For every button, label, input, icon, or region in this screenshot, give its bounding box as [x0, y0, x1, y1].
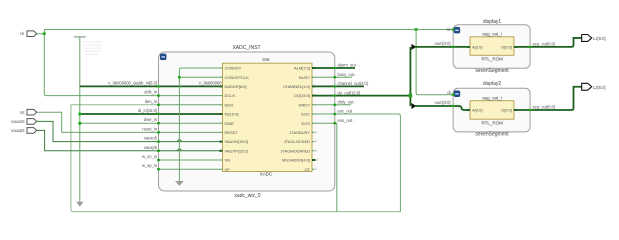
- unconnected-pin 0 markers: [315, 130, 318, 171]
- svg-text:seg_out[6:0]: seg_out[6:0]: [533, 41, 556, 46]
- svg-text:MUXADDR[4:0]: MUXADDR[4:0]: [282, 158, 310, 163]
- wire num bus into display2: [414, 105, 453, 107]
- svg-text:sevenSegment: sevenSegment: [475, 131, 509, 137]
- junction ground to CONVSTCLK: [178, 76, 181, 79]
- interior wire BUSY row: [316, 76, 335, 78]
- faint ghost artifact strips: [83, 41, 102, 55]
- junction ck net: [43, 32, 46, 35]
- svg-text:∽: ∽: [357, 64, 360, 68]
- svg-text:0: 0: [315, 149, 317, 153]
- input port vauxn5: [11, 119, 36, 125]
- svg-text:EOS: EOS: [302, 121, 311, 126]
- interior wire vauxn row: [159, 141, 220, 143]
- svg-text:RESET: RESET: [225, 130, 239, 135]
- svg-text:CONVST: CONVST: [225, 66, 242, 71]
- svg-text:VAUXN[15:0]: VAUXN[15:0]: [225, 139, 249, 144]
- output port L1: [582, 35, 606, 42]
- interior wire DRDY row: [316, 104, 335, 106]
- svg-text:eos_out: eos_out: [338, 118, 353, 123]
- wire do_out bus to junction: [335, 95, 411, 97]
- svg-text:DRDY: DRDY: [299, 102, 311, 107]
- svg-text:VAUXP[15:0]: VAUXP[15:0]: [225, 148, 248, 153]
- svg-text:0: 0: [315, 167, 317, 171]
- svg-text:vauxp5: vauxp5: [144, 145, 158, 150]
- wire ck net branch to dclk_in: [44, 34, 158, 96]
- wire ck net branch to display2 ck: [416, 30, 453, 95]
- svg-text:seg_out_i: seg_out_i: [482, 31, 502, 36]
- XADC scalar pin stubs right: [312, 77, 316, 169]
- svg-text:0: 0: [315, 140, 317, 144]
- svg-text:dwe_in: dwe_in: [144, 117, 158, 122]
- XADC scalar pin stubs left: [219, 68, 222, 169]
- drdy_out stub: [335, 104, 351, 106]
- svg-text:DCLK: DCLK: [225, 93, 236, 98]
- svg-text:channel_out[4:0]: channel_out[4:0]: [338, 81, 368, 86]
- svg-text:inst: inst: [262, 57, 270, 62]
- svg-text:num[3:0]: num[3:0]: [435, 100, 451, 105]
- wire seg_out inside display1: [514, 46, 530, 48]
- svg-text:seg_out_i: seg_out_i: [482, 96, 502, 101]
- hierarchical block display2 (outer): [453, 81, 530, 137]
- wire di_in bus from constant: [80, 113, 220, 115]
- svg-text:L2[6:0]: L2[6:0]: [593, 85, 606, 90]
- collapse icon of XADC_INST: [160, 54, 166, 60]
- svg-text:den_in: den_in: [145, 99, 158, 104]
- XADC left pin labels: [225, 66, 250, 172]
- svg-text:O[6:0]: O[6:0]: [501, 44, 512, 49]
- wire constant net vertical: [79, 37, 81, 202]
- wire num inside display1: [453, 46, 470, 48]
- svg-text:∽: ∽: [352, 119, 355, 123]
- svg-text:CHANNEL[4:0]: CHANNEL[4:0]: [283, 84, 310, 89]
- wire den_in net with bottom rail: [71, 105, 401, 212]
- XADC_INST right pin-name labels: [338, 63, 368, 123]
- svg-text:v_9b000000: v_9b000000: [199, 80, 222, 85]
- constant net driver bar: [74, 36, 86, 38]
- hierarchical pin ticks display2: [452, 94, 532, 112]
- svg-text:0: 0: [315, 130, 317, 134]
- input port vauxp5: [11, 128, 36, 134]
- svg-text:XADC: XADC: [260, 171, 273, 176]
- svg-text:ALM[7:0]: ALM[7:0]: [294, 66, 310, 71]
- svg-text:busy_out: busy_out: [338, 72, 355, 77]
- channel_out stub: [335, 85, 364, 87]
- interior wire CHANNEL bus row: [316, 85, 335, 87]
- junction constant to di_in: [78, 112, 81, 115]
- interior wire reset row: [159, 131, 220, 133]
- svg-text:OT: OT: [304, 167, 310, 172]
- wire CONVSTCLK branch: [179, 76, 219, 78]
- svg-text:∽: ∽: [353, 101, 356, 105]
- svg-text:DWE: DWE: [225, 121, 235, 126]
- dangling markers on right pins: [352, 64, 369, 123]
- svg-text:VN: VN: [225, 158, 231, 163]
- XADC_INST left pin-name labels: [108, 80, 157, 168]
- collapse icon of display2: [454, 91, 460, 97]
- wire num inside display2 with jog: [453, 106, 470, 110]
- svg-text:alarm_out: alarm_out: [338, 63, 357, 68]
- svg-text:L1[6:0]: L1[6:0]: [593, 36, 606, 41]
- wire rst to reset_in: [37, 112, 159, 132]
- svg-text:w_vp_in: w_vp_in: [142, 163, 158, 168]
- svg-text:display2: display2: [483, 81, 502, 87]
- wire seg_out bus to port L1: [530, 38, 582, 47]
- XADC bus pin stubs right (ALM, CHANNEL, DO, MUXADDR): [312, 68, 316, 160]
- svg-text:vauxp5: vauxp5: [11, 128, 25, 133]
- svg-text:CONVSTCLK: CONVSTCLK: [225, 75, 250, 80]
- svg-text:JTAGBUSY: JTAGBUSY: [289, 130, 310, 135]
- svg-text:w_vn_in: w_vn_in: [142, 154, 158, 159]
- svg-text:display1: display1: [483, 19, 502, 25]
- svg-text:di_in[15:0]: di_in[15:0]: [138, 108, 157, 113]
- XADC primitive U-inst (inner yellow block): [223, 57, 313, 176]
- svg-text:O[6:0]: O[6:0]: [501, 108, 512, 113]
- svg-text:vauxn5: vauxn5: [144, 136, 158, 141]
- input port ck: [20, 31, 37, 37]
- arrowhead num into display1: [411, 44, 416, 50]
- dangling arrow constant net: [76, 202, 83, 207]
- interior wire EOC row: [316, 113, 335, 115]
- interior wire vn row: [159, 159, 220, 161]
- collapse icon of display1: [454, 27, 460, 33]
- svg-text:DO[15:0]: DO[15:0]: [294, 93, 310, 98]
- svg-text:DI[15:0]: DI[15:0]: [225, 112, 239, 117]
- output port L2: [582, 83, 606, 90]
- wire eos_out routed down: [335, 123, 337, 211]
- interior wire ALM bus row: [316, 67, 335, 69]
- svg-text:do_out[15:0]: do_out[15:0]: [338, 90, 361, 95]
- wire vauxp5 to VAUXP: [37, 130, 159, 150]
- hierarchical pin ticks XADC_INST left edge: [157, 85, 160, 170]
- svg-text:EOC: EOC: [301, 112, 310, 117]
- wire hop vauxn over ground vertical: [177, 139, 182, 141]
- arrowhead num into display2: [411, 103, 416, 109]
- XADC bus pin stubs left (DADDR, DI, VAUXN, VAUXP): [219, 86, 222, 150]
- pin A of display2 ROM: [467, 108, 483, 113]
- svg-text:num[3:0]: num[3:0]: [435, 41, 451, 46]
- pin O of display2 ROM: [501, 108, 517, 113]
- busy_out stub: [335, 76, 352, 78]
- interior wire dclk row: [159, 95, 220, 97]
- hierarchical block XADC_INST (outer): [159, 45, 335, 199]
- wire eoc_out routed to bottom rail: [335, 114, 401, 212]
- interior wire vauxp row: [159, 150, 220, 152]
- wire daddr_in bus from constant: [80, 85, 220, 87]
- interior wire EOS row: [316, 122, 335, 124]
- interior wire den row: [159, 104, 220, 106]
- svg-text:∽: ∽: [354, 73, 357, 77]
- svg-text:xadc_wiz_0: xadc_wiz_0: [234, 193, 260, 199]
- svg-text:vauxn5: vauxn5: [11, 119, 25, 124]
- wire dwe_in from constant: [80, 122, 159, 124]
- alarm_out stub: [335, 67, 355, 69]
- svg-text:BUSY: BUSY: [299, 75, 310, 80]
- svg-text:dclk_in: dclk_in: [144, 90, 157, 95]
- hierarchical pin ticks XADC_INST right edge: [333, 67, 336, 124]
- svg-text:reset_in: reset_in: [142, 126, 157, 131]
- svg-text:∽: ∽: [366, 83, 369, 87]
- interior wire vp row: [159, 168, 220, 170]
- interior wire DO bus row: [316, 95, 335, 97]
- svg-text:sevenSegment: sevenSegment: [475, 68, 509, 74]
- pin O of display1 ROM: [501, 44, 517, 49]
- XADC right pin labels: [281, 66, 311, 172]
- svg-text:RTL_ROM: RTL_ROM: [481, 56, 503, 61]
- wire num bus into display1: [414, 46, 453, 48]
- ROM seg_out_i in display2 (inner yellow block): [470, 96, 514, 126]
- svg-text:A[3:0]: A[3:0]: [472, 44, 482, 49]
- ground net vertical feeding CONVST and CONVSTCLK: [179, 68, 219, 181]
- wire ck net: port to display1 ck pin: [37, 30, 453, 34]
- wire hop vauxp over ground vertical: [177, 149, 182, 151]
- junction ck net at display branch: [415, 28, 418, 31]
- input port rst: [20, 109, 37, 115]
- svg-text:JTAGMODIFIED: JTAGMODIFIED: [281, 148, 311, 153]
- svg-text:drdy_out: drdy_out: [338, 100, 355, 105]
- ground dangling arrow inside XADC_INST: [175, 181, 184, 186]
- hierarchical block display1 (outer): [453, 19, 530, 74]
- wire seg_out bus to port L2: [530, 87, 582, 110]
- hierarchical pin ticks display1: [452, 28, 532, 48]
- svg-text:JTAGLOCKED: JTAGLOCKED: [284, 139, 310, 144]
- junction constant to dwe_in: [78, 122, 81, 125]
- svg-text:seg_out[6:0]: seg_out[6:0]: [533, 104, 556, 109]
- svg-text:VP: VP: [225, 167, 231, 172]
- svg-text:DADDR[6:0]: DADDR[6:0]: [225, 84, 247, 89]
- wire seg_out inside display2: [514, 109, 530, 111]
- svg-text:0: 0: [316, 158, 318, 162]
- pin A of display1 ROM: [467, 44, 483, 49]
- interior wire dwe row: [159, 122, 220, 124]
- svg-text:XADC_INST: XADC_INST: [232, 45, 260, 51]
- ROM seg_out_i in display1 (inner yellow block): [470, 31, 514, 61]
- svg-text:eoc_out: eoc_out: [338, 109, 353, 114]
- wire num bus vertical: [409, 47, 411, 106]
- svg-text:v_9b000000_daddr_in[6:0]: v_9b000000_daddr_in[6:0]: [108, 80, 157, 85]
- wire vauxn5 to VAUXN: [37, 121, 159, 141]
- svg-text:RTL_ROM: RTL_ROM: [481, 120, 503, 125]
- svg-text:A[3:0]: A[3:0]: [472, 108, 482, 113]
- svg-text:DEN: DEN: [225, 102, 234, 107]
- junction do_out num bus: [409, 94, 413, 98]
